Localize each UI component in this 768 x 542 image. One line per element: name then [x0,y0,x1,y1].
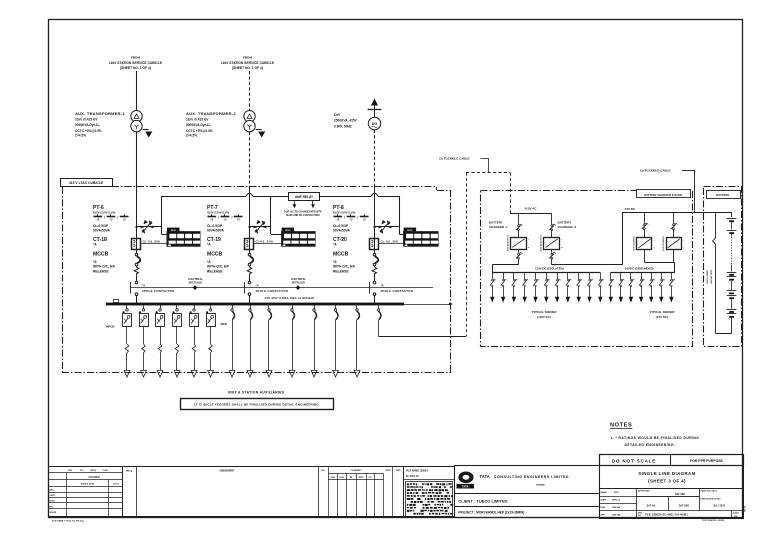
svg-text:/: / [218,216,219,220]
110V DC typical feeder 4 [523,273,529,303]
svg-text:TATA: TATA [480,474,490,479]
110V DC typical feeder 7 [555,273,561,303]
svg-text:4POLE CONTACTOR: 4POLE CONTACTOR [381,289,414,293]
svg-text:~: ~ [683,239,685,242]
svg-text:562-03: 562-03 [745,505,747,512]
node: FROM 11kV STATION SERVICE CUBICLE (feeder 2 source label) [221,56,275,71]
svg-text:√3: √3 [237,218,240,222]
interlock junction diamond 2 [291,278,306,290]
busbar thin extension with arrow [404,303,453,306]
svg-text:Z=4.5%: Z=4.5% [186,134,197,138]
appd and date columns [386,467,404,517]
svg-text:SUPP: SUPP [601,499,607,501]
MCCB incomer 1 (breaker + contactor poles) [134,253,140,305]
wire: incomer 2 feeder inside cubicle to MCCB [249,187,251,253]
svg-text:APPD: APPD [386,469,392,472]
svg-text:MCCB: MCCB [333,252,349,258]
svg-text:DRN.: DRN. [50,490,55,492]
svg-text:TYPICAL FEEDER: TYPICAL FEEDER [650,310,676,314]
svg-text:/: / [344,216,345,220]
svg-text:OCTC +5%@2.5%: OCTC +5%@2.5% [75,129,102,133]
110V DC typical feeder 8 [566,273,572,303]
24V DC typical feeder 3 [629,272,635,302]
svg-text:(SHEET 3 OF 4): (SHEET 3 OF 4) [648,478,686,483]
24V DC typical feeder 7 [669,272,675,302]
svg-text:P.O: P.O [80,470,84,472]
svg-text:*A: *A [333,243,337,247]
svg-text:*A: *A [207,243,211,247]
LT feeder 5 with MPCB [190,305,199,377]
svg-text:√3: √3 [224,218,227,222]
PT-8 tap with drawout fuse and riser [373,196,403,235]
svg-text:(110V DC): (110V DC) [537,315,551,319]
svg-text:SAF-AB: SAF-AB [647,504,656,507]
wire: T1 secondary down to LTAC cubicle [136,132,138,187]
PT-8 / CT-20 / MCCB label column for incomer 3 [333,205,369,274]
wire: converter outputs to 24VDC bus [644,262,675,272]
svg-text:3POLE CONTACTOR: 3POLE CONTACTOR [142,289,175,293]
svg-text:DG: DG [334,112,340,117]
24V DC typical feeder 6 [659,272,665,302]
svg-text:DRN: DRN [601,507,606,509]
svg-text:√3: √3 [96,218,99,222]
svg-text:3POLE CONTACTOR: 3POLE CONTACTOR [256,289,289,293]
svg-text:11kV /0.415 KV: 11kV /0.415 KV [75,117,98,121]
svg-text:/: / [231,216,232,220]
generator DG (circle symbol) [368,117,380,129]
svg-text:(SHEET NO. 1 OF 4): (SHEET NO. 1 OF 4) [232,66,263,70]
battery cubicle boundary (dash-dot) [704,187,742,347]
svg-text:=: = [561,247,563,250]
DG neutral riser with arrow [368,99,382,118]
svg-text:CHKD: CHKD [339,477,345,479]
svg-text:DRN-CV: DRN-CV [612,499,621,501]
3POLE contactor label incomer 2 [256,283,289,293]
AMF relay output arrows to contactors [284,201,322,218]
svg-text:*A: *A [333,260,337,264]
note box: LT cubicle feeders finalised during detail engineering [181,399,334,410]
svg-text:LT CUBICLE FEEDERS SHALL BE FI: LT CUBICLE FEEDERS SHALL BE FINALISED DU… [194,403,319,407]
svg-text:√3: √3 [210,218,213,222]
battery charger 2 (415V AC / 110V DC) [540,214,577,265]
TYPICAL FEEDER (24V DC) label [650,310,676,319]
svg-text:ELECTRICAL: ELECTRICAL [291,278,306,281]
svg-text:*A: *A [93,260,97,264]
battery charger 1 (415V AC / 110V DC) [489,214,530,265]
meter box MFM-3 [404,228,439,247]
svg-text:415V AC/110V DC: 415V AC/110V DC [540,234,543,251]
svg-text:INTERLOCK: INTERLOCK [189,282,203,284]
svg-text:11kV STATION SERVICE CUBICLE: 11kV STATION SERVICE CUBICLE [109,61,163,65]
svg-text:0.9PF, 50HZ: 0.9PF, 50HZ [334,124,352,128]
PT-7 / CT-19 / MCCB label column for incomer 2 [207,205,243,274]
svg-text:RELEASE: RELEASE [207,270,223,274]
svg-text:CLIENT : TUECO LIMITED: CLIENT : TUECO LIMITED [458,498,507,503]
BATTERY name plate [707,191,741,199]
wire: incomer 3 feeder inside cubicle to MCCB [374,187,376,253]
svg-text:WITH O/C, E/F: WITH O/C, E/F [207,265,229,269]
svg-text:/: / [357,216,358,220]
svg-text:BATTERY: BATTERY [558,220,572,224]
svg-text:S/N: S/N [321,470,325,472]
svg-text:415 V LTAC CUBICLE: 415 V LTAC CUBICLE [69,181,104,185]
transformer T1 (delta-wye, two winding) [131,111,142,132]
svg-text:3 Ph. 415V *A,50KA, 1SEC. AL B: 3 Ph. 415V *A,50KA, 1SEC. AL BUS BAR [265,296,315,300]
110V DC typical feeder 2 [501,273,507,303]
24V DC typical feeder 4 [639,272,645,302]
T2 neutral earthing arrow [256,130,266,138]
svg-text:√3: √3 [110,218,113,222]
svg-text:2500KVA, 415V: 2500KVA, 415V [334,119,358,123]
svg-text:(SHEET NO. 1 OF 4): (SHEET NO. 1 OF 4) [120,66,151,70]
DO NOT SCALE box [600,454,744,465]
wire: incomer 1 from source to transformer T1 [136,71,138,111]
CT-18 current transformer on incomer 1 [132,239,161,250]
svg-text:FROM: FROM [131,56,141,60]
svg-text:Cu FLEXIBLE CABLE: Cu FLEXIBLE CABLE [439,157,470,161]
415V LTAC cubicle boundary (dash-dot) [62,187,451,373]
svg-text:1. * RATINGS WOULD BE FIN: 1. * RATINGS WOULD BE FINALISED DURING [611,436,700,440]
svg-text:RELEASE: RELEASE [333,270,349,274]
LT feeder 9 with MCB [266,305,272,377]
svg-text:/: / [117,216,118,220]
svg-text:RECD: RECD [50,501,56,503]
3POLE contactor label incomer 1 [142,283,175,293]
svg-text:TCE.13583A-EL-4001-AU-40001: TCE.13583A-EL-4001-AU-40001 [645,513,688,517]
AMF RELAY box [289,193,320,201]
wire: incomer 1 feeder inside cubicle to MCCB [136,187,138,253]
svg-text:SINGLE LINE DIAGRAM: SINGLE LINE DIAGRAM [638,471,695,476]
S/N and cleared-by columns [321,467,383,517]
svg-text:WITH O/C, E/F: WITH O/C, E/F [333,265,355,269]
svg-text:DO NOT SCALE: DO NOT SCALE [612,459,656,464]
REV column [123,467,137,517]
svg-text:CL- 0.5 , 5VA: CL- 0.5 , 5VA [381,240,399,244]
110V DC typical feeder 11 [598,273,604,303]
DC-DC converter 2 (110V DC / 24V DC) [662,212,685,262]
svg-text:INTERLOCK: INTERLOCK [292,282,306,284]
svg-text:BATTERY: BATTERY [716,193,729,197]
svg-text:BATTERY CHARGER & DCDB: BATTERY CHARGER & DCDB [644,193,682,197]
svg-text:5000KVA,Dyn11,: 5000KVA,Dyn11, [186,123,211,127]
svg-text:APPROVED: APPROVED [638,490,650,493]
svg-text:AMENDMENT: AMENDMENT [220,469,236,472]
svg-text:SAF-AB: SAF-AB [612,513,621,516]
svg-text:5000KVA,Dyn11,: 5000KVA,Dyn11, [75,123,100,127]
svg-text:CONSULTING ENGINEERS LIMITED: CONSULTING ENGINEERS LIMITED [494,475,569,479]
svg-text:FILE NAME: F-2013-Tce-PIS.dwg: FILE NAME: F-2013-Tce-PIS.dwg [52,519,85,522]
revision table frame [49,467,455,517]
svg-text:*A: *A [207,260,211,264]
24V DC typical feeder 1 [609,272,615,302]
TATA CONSULTING ENGINEERS LIMITED text [480,474,570,486]
PT-6 / CT-18 / MCCB label column for incomer 1 [93,205,129,274]
svg-text:EL-4001-05: EL-4001-05 [406,475,419,478]
svg-text:110V DC/24VDC: 110V DC/24VDC [662,235,665,251]
svg-text:MPCB: MPCB [106,324,115,328]
svg-text:NO: NO [638,515,641,517]
svg-text:REV.g: REV.g [126,470,133,472]
svg-text:*A: *A [142,283,146,287]
battery return conductor with link jog [713,212,716,333]
consultant block frame [454,466,599,518]
svg-text:APP: APP [601,513,606,516]
svg-text:√3: √3 [123,218,126,222]
svg-text:24VDC (GROUNDED): 24VDC (GROUNDED) [625,266,654,270]
wire: DG down to LTAC cubicle (dashed) [374,130,376,187]
LT feeder 3 with MPCB [156,305,165,377]
wire: CT-19 secondary to meter box 2 [254,243,282,245]
svg-text:SAF-AB: SAF-AB [612,506,621,509]
svg-text:ISSUED: ISSUED [50,512,57,514]
svg-text:RELEASE: RELEASE [93,270,109,274]
DC-DC converter 1 (110V DC / 24V DC) [633,212,656,262]
svg-text:415V AC: 415V AC [525,207,538,211]
contactor electrical interlock line [130,282,433,294]
LT feeder to battery charger cubicle (MCB + outgoing wire) [377,305,466,336]
svg-text:CAT. R: CAT. R [113,482,120,485]
MCCB incomer 2 [247,253,253,305]
svg-text:√3: √3 [336,218,339,222]
svg-text:NAME: NAME [601,491,608,494]
svg-text:DG: DG [372,122,378,126]
svg-text:DATE (NO. REV.): DATE (NO. REV.) [701,490,718,493]
svg-text:50VA/50VA: 50VA/50VA [333,229,351,233]
svg-text:SAF-SKD: SAF-SKD [679,504,690,507]
T1 neutral earthing arrow [143,130,153,138]
TATA logo [457,472,475,489]
svg-text:TCE FORM NO. 020 R6: TCE FORM NO. 020 R6 [702,520,725,522]
110V DC typical feeder 10 [587,273,593,303]
svg-text:CL-0.5 , 5 VA: CL-0.5 , 5 VA [256,240,274,244]
svg-text:MCB: MCB [221,322,228,326]
Cu FLEXIBLE CABLE label (charger to battery) [640,169,695,212]
wire: AMF relay to feeder3 riser with hop over feeder 3 [320,193,400,196]
title block approval grid [599,488,743,518]
meter box MFM-2 [282,228,316,247]
4POLE contactor label incomer 3 (DG) [381,283,414,293]
110V DC typical feeder 5 [533,273,539,303]
approval stamp (dense text block) [404,467,455,517]
svg-text:FOR A/C TO CHANGEOVER BTW: FOR A/C TO CHANGEOVER BTW [284,210,322,213]
svg-text:24V DC: 24V DC [625,207,636,211]
interlock junction diamond 1 [188,278,203,290]
svg-text:CLEARED: CLEARED [350,469,361,472]
drawing title: SINGLE LINE DIAGRAM (SHEET 3 OF 4) [600,466,744,489]
amendment cell [220,467,319,517]
svg-text:~: ~ [654,239,656,242]
LT feeder 13 with MCB [354,305,360,377]
svg-text:50VA/50VA: 50VA/50VA [207,229,225,233]
wire: CT-20 secondary to meter box 3 [379,243,404,245]
svg-text:PROJECT : MORI BANDL HEP (2x2: PROJECT : MORI BANDL HEP (2x23-36MW) [458,511,524,515]
PT-6 tap with drawout fuse and riser to AMF relay bus [135,196,167,235]
svg-text:=: = [654,247,656,250]
svg-text:CL-0.5/3P: CL-0.5/3P [333,224,349,228]
svg-text:MTD: MTD [614,492,619,494]
wire: T2 secondary down to LTAC cubicle (dashed) [249,132,251,187]
battery rating label (vertical) [706,269,713,284]
110V DC typical feeder 1 [490,273,496,303]
NOTES heading [610,423,633,429]
svg-text:*AH BATTERY: *AH BATTERY [710,269,713,284]
svg-text:110V & 24VDC: 110V & 24VDC [706,269,709,284]
svg-text:CL-0.5/3P: CL-0.5/3P [207,224,223,228]
svg-text:=: = [683,247,685,250]
transformer T1 label block [75,111,125,138]
svg-text:CL- 0.5 , 5VA: CL- 0.5 , 5VA [143,240,161,244]
svg-text:50VA/50VA: 50VA/50VA [93,229,111,233]
svg-text:Z=4.5%: Z=4.5% [75,134,86,138]
CT-20 current transformer on incomer 3 [370,239,399,250]
svg-text:*A: *A [381,283,385,287]
110V DC typical feeder 6 [544,273,550,303]
svg-text:FILE NAME 13583A-: FILE NAME 13583A- [406,470,429,473]
svg-text:415V /110V /110V: 415V /110V /110V [333,210,356,214]
BATTERY CHARGER & DCDB name plate [637,190,691,198]
transformer T2 label block [186,111,236,138]
svg-text:DRN: DRN [331,477,335,479]
415V AL busbar [106,296,404,305]
svg-text:DETAILED ENGINEERING.: DETAILED ENGINEERING. [625,443,676,447]
svg-text:FOR PPR PURPOSE: FOR PPR PURPOSE [690,459,723,463]
wire: CT-18 secondary to meter box 1 [141,243,168,245]
LT feeder 4 with MPCB [173,305,182,377]
svg-text:CHK.ˇ: CHK.ˇ [103,469,109,472]
svg-text:110V DC/24VDC: 110V DC/24VDC [633,235,636,251]
node: FROM 11kV STATION SERVICE CUBICLE (feeder 1 source label) [109,56,163,71]
svg-text:WITH O/C, E/F: WITH O/C, E/F [93,265,115,269]
battery string 110V & 24V DC [716,212,737,334]
svg-text:DATE (SURVEY) REV: DATE (SURVEY) REV [701,498,722,501]
110V DC (ISOLATED) bus [492,266,600,272]
svg-text:REL.: REL. [50,507,55,509]
svg-text:APPD: APPD [359,476,364,479]
svg-text:CHARGER -2: CHARGER -2 [558,225,577,229]
wire: incomer 2 from source to transformer T2 (cable, dashed) [249,71,251,111]
svg-text:REV.[: REV.[ [91,470,97,472]
svg-text:11kV /0.415 KV: 11kV /0.415 KV [186,117,209,121]
svg-text:√3: √3 [363,218,366,222]
wire: relay bus feeder1 riser to AMF relay with hop over feeder 2 [162,193,289,196]
24V DC typical feeder 5 [649,272,655,302]
svg-text:ISSUED DATE: ISSUED DATE [81,482,95,485]
LT feeder 11 with MCB [311,305,317,377]
svg-text:TATA: TATA [462,485,468,489]
svg-text:BATTERY: BATTERY [489,220,503,224]
110V DC typical feeder 3 [512,273,518,303]
revision table header texts [50,469,120,514]
flexible cable run (dashed) from LT cubicle to charger cubicle [466,173,511,337]
LT feeder 10 with MCB [289,305,295,377]
svg-text:*A: *A [93,243,97,247]
svg-text:TYPICAL FEEDER: TYPICAL FEEDER [532,310,558,314]
svg-text:AUX. TRANSFORMER-1: AUX. TRANSFORMER-1 [75,111,125,116]
svg-text:MCCB: MCCB [93,252,109,258]
TYPICAL FEEDER (110V DC) label [532,310,558,319]
LTAC cubicle name plate [61,179,113,187]
110V DC typical feeder 9 [577,273,583,303]
svg-text:P/M: P/M [68,470,72,472]
battery charger & DCDB cubicle boundary (dash-dot) [481,191,693,347]
MCCB incomer 3 [372,253,378,305]
svg-text:*A: *A [256,283,260,287]
svg-text:UNIT & STATION AUXILIARIES: UNIT & STATION AUXILIARIES [228,391,285,395]
svg-text:Cu FLEXIBLE CABLE: Cu FLEXIBLE CABLE [640,169,671,173]
note 1 text [611,436,700,447]
PT-7 tap with drawout fuse and riser to AMF relay [248,196,281,235]
Cu FLEXIBLE CABLE label (LT to charger) [439,157,489,173]
svg-text:/: / [104,216,105,220]
svg-text:OCTC +5%@2.5%: OCTC +5%@2.5% [186,129,213,133]
svg-text:~: ~ [561,239,563,242]
svg-text:CHARGER -1: CHARGER -1 [489,225,508,229]
LT feeder 12 with MCB [333,305,339,377]
svg-text:=: = [528,247,530,250]
svg-text:SCALE: SCALE [733,512,740,515]
svg-text:FROM: FROM [243,56,253,60]
meter box MFM-1 (multifunction meters) [167,228,200,247]
svg-text:415V AC/110V DC: 415V AC/110V DC [506,234,509,251]
svg-text:NOTES: NOTES [610,423,632,429]
24V DC typical feeder 2 [619,272,625,302]
svg-text:AMF RELAY: AMF RELAY [295,195,314,199]
DG set label block [334,112,358,128]
svg-text:MAIN AND DG CONTACTORS: MAIN AND DG CONTACTORS [286,214,320,217]
wire: charger 2 output riser to 24V DC line [552,212,623,265]
svg-text:110V DC (ISOLATED): 110V DC (ISOLATED) [535,266,564,270]
LT feeder 2 with MPCB [139,305,149,377]
svg-text:RE: RE [350,477,353,479]
24VDC (GROUNDED) bus [611,266,675,272]
LT feeder 7 with MCB [229,305,235,377]
svg-text:CL-0.5/3P: CL-0.5/3P [93,224,109,228]
svg-text:AUX. TRANSFORMER-2: AUX. TRANSFORMER-2 [186,111,236,116]
svg-text:JULY 2024: JULY 2024 [713,505,726,508]
svg-text:ELECTRICAL: ELECTRICAL [188,278,203,281]
LT feeder 8 with MCB [247,305,253,377]
svg-text:CLEARED: CLEARED [88,476,99,479]
svg-text:SAF-SKD: SAF-SKD [675,493,686,496]
LT feeder 6 with MPCB [206,305,216,377]
wire: charger 1 output to 110V DC bus [492,265,518,273]
svg-text:DATE: DATE [396,469,402,472]
LT feeder 1 with MPCB [123,305,132,377]
svg-text:~: ~ [528,239,530,242]
svg-text:11kV STATION SERVICE CUBICLE: 11kV STATION SERVICE CUBICLE [221,61,275,65]
415V AC input bus in charger cubicle [510,207,552,214]
svg-text:415V /110V /110V: 415V /110V /110V [93,210,116,214]
svg-text:(24V DC): (24V DC) [656,315,668,319]
svg-text:MUMBAI: MUMBAI [536,484,545,487]
svg-text:CHKD: CHKD [50,495,56,497]
svg-text:415V /110V /110V: 415V /110V /110V [207,210,230,214]
svg-text:MCCB: MCCB [207,252,223,258]
24V DC distribution line to converters and battery [623,207,732,213]
svg-text:C/O: C/O [368,477,372,479]
transformer T2 (delta-wye, two winding) [244,111,255,132]
svg-text:√3: √3 [350,218,353,222]
CT-19 current transformer on incomer 2 [245,239,274,250]
